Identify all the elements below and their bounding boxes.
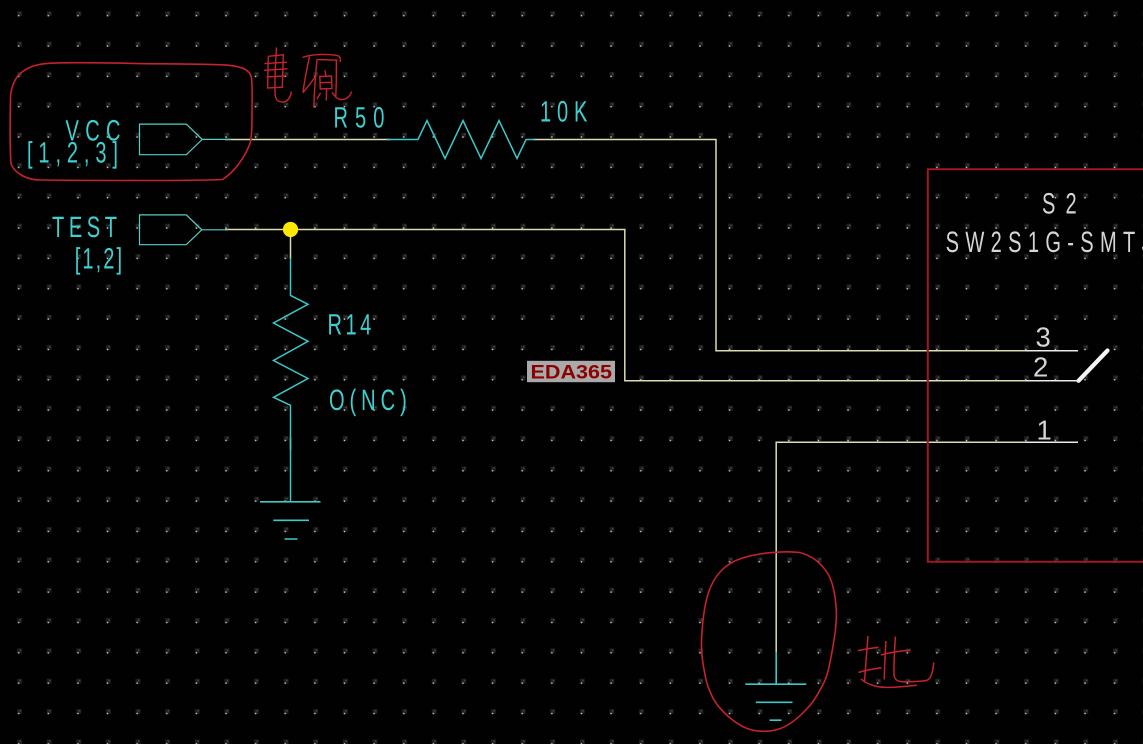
resistor R50 (387, 121, 535, 159)
wire VCC port to R50 (225, 139, 390, 141)
red markup ellipse around ground (701, 552, 836, 731)
label SW2S1G-SMTJ (946, 226, 1143, 259)
label VCC (65, 115, 120, 148)
junction dot (283, 222, 298, 237)
EDA365 watermark (527, 361, 615, 382)
svg-text:R50: R50 (333, 101, 384, 134)
ground under R14 (260, 502, 321, 539)
svg-text:2: 2 (1033, 352, 1048, 383)
wire junction to R14 (290, 232, 292, 259)
switch S2 pin 3 (1026, 350, 1078, 352)
wire stub on R14 lower lead (290, 438, 292, 450)
resistor R14 (274, 258, 309, 502)
red handwriting dian (electric) (264, 48, 291, 103)
svg-text:EDA365: EDA365 (531, 362, 613, 384)
svg-text:R14: R14 (327, 309, 371, 342)
label R50 (333, 101, 384, 134)
component body box S2 (red rectangle) (928, 169, 1143, 561)
svg-text:1: 1 (1037, 415, 1052, 446)
svg-text:O(NC): O(NC) (329, 384, 407, 417)
red handwriting di (ground) (858, 636, 934, 687)
label R14 (327, 309, 371, 342)
label [1,2] (75, 243, 122, 276)
wire S2 pin 1 to ground (776, 442, 1078, 652)
svg-text:3: 3 (1036, 321, 1051, 352)
label O(NC) (329, 384, 407, 417)
ground at S2 pin 1 (745, 652, 806, 720)
svg-text:[1,2,3]: [1,2,3] (27, 137, 118, 170)
red handwriting yuan (source) (303, 54, 352, 107)
svg-text:10K: 10K (540, 96, 588, 129)
label TEST (52, 211, 117, 244)
label S2 (1042, 188, 1077, 221)
red markup blob around VCC (10, 63, 252, 181)
label [1,2,3] (27, 137, 118, 170)
switch S2 pin 1 (1026, 441, 1078, 443)
label 10K (540, 96, 588, 129)
switch S2 pin 2 (1026, 380, 1078, 382)
wire R50 to S2 pin 3 (533, 140, 1078, 351)
port TEST (140, 215, 229, 245)
switch S2 lever (1079, 351, 1108, 381)
wire TEST port to S2 pin 2 (225, 230, 1078, 381)
port VCC (140, 124, 232, 155)
